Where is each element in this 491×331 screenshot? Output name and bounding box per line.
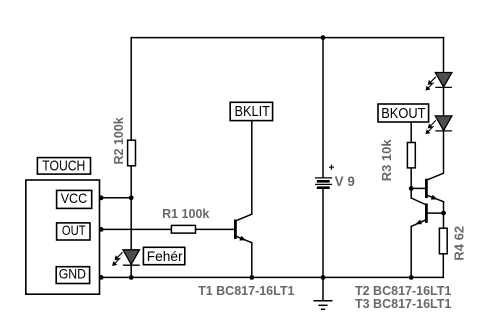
svg-text:VCC: VCC: [61, 190, 87, 206]
svg-text:Fehér: Fehér: [147, 248, 183, 264]
svg-text:T3 BC817-16LT1: T3 BC817-16LT1: [355, 297, 451, 311]
svg-text:BKLIT: BKLIT: [235, 103, 270, 120]
svg-text:TOUCH: TOUCH: [42, 159, 85, 175]
svg-text:R1 100k: R1 100k: [162, 207, 209, 221]
svg-text:T2 BC817-16LT1: T2 BC817-16LT1: [355, 284, 451, 298]
svg-text:T1 BC817-16LT1: T1 BC817-16LT1: [198, 284, 294, 298]
svg-text:R2 100k: R2 100k: [112, 117, 126, 164]
svg-text:R4 62: R4 62: [451, 226, 466, 261]
svg-text:R3 10k: R3 10k: [379, 139, 394, 182]
svg-text:OUT: OUT: [62, 223, 86, 238]
svg-text:BKOUT: BKOUT: [381, 105, 425, 122]
svg-text:V 9: V 9: [335, 174, 355, 189]
svg-text:GND: GND: [59, 267, 87, 282]
